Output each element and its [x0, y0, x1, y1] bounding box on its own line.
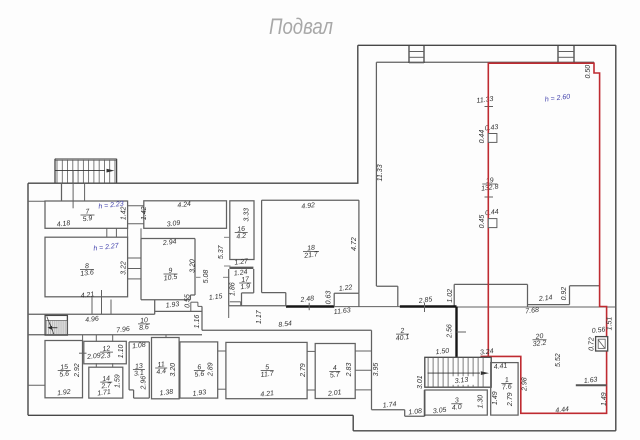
dim line y277 — [196, 276, 201, 278]
outer wall left of hall section — [357, 45, 359, 183]
svg-text:5.37: 5.37 — [218, 244, 225, 259]
tick corridor x165 — [165, 335, 167, 338]
svg-text:1.42: 1.42 — [121, 206, 128, 220]
door lines rooms 6-5 — [218, 350, 226, 352]
svg-text:2.89: 2.89 — [207, 362, 214, 377]
svg-text:3.22: 3.22 — [121, 261, 128, 275]
door lines rooms 5-4 — [307, 350, 315, 352]
hall niche right vert — [569, 286, 571, 305]
svg-text:0.50: 0.50 — [585, 65, 592, 79]
room 6 — [180, 342, 218, 398]
corridor upper line — [155, 310, 202, 312]
room2 left wall — [371, 330, 373, 409]
corridor jog vert — [154, 300, 156, 315]
svg-text:5.08: 5.08 — [203, 270, 210, 284]
wall line y307 thin mid — [334, 306, 400, 308]
room 13 outline — [129, 341, 149, 343]
tick left 1.08 — [28, 384, 45, 386]
svg-text:2.79: 2.79 — [300, 363, 307, 378]
mini staircase — [45, 315, 67, 335]
svg-text:1.51: 1.51 — [606, 317, 613, 331]
small box under 17 — [230, 301, 241, 303]
room 7 — [45, 201, 128, 228]
svg-text:5.52: 5.52 — [555, 353, 562, 367]
svg-text:5.6: 5.6 — [59, 371, 70, 379]
svg-text:11.33: 11.33 — [377, 164, 384, 181]
hall niche right bottom — [528, 304, 570, 306]
outer wall bottom-right — [353, 430, 616, 432]
duct stub below 17 — [228, 306, 230, 318]
outer wall bottom-left — [28, 414, 353, 416]
room2 bottom step v — [404, 410, 406, 417]
wall thick right — [400, 305, 457, 307]
hall pilaster right vert — [527, 284, 529, 307]
corridor bottom line — [28, 334, 202, 336]
svg-text:0.63: 0.63 — [326, 291, 333, 305]
hall pilaster top — [454, 283, 527, 285]
room 14 — [89, 367, 123, 398]
svg-text:1.9: 1.9 — [240, 283, 251, 291]
shaft walls below room 8 — [91, 297, 93, 314]
room 11 — [152, 338, 180, 399]
svg-text:1.02: 1.02 — [447, 289, 454, 303]
svg-text:3.01: 3.01 — [417, 375, 424, 389]
step 0.55 outline — [190, 302, 192, 311]
hall inner wall top — [376, 61, 594, 63]
svg-text:0.72: 0.72 — [589, 337, 596, 351]
wall line 7.68 — [457, 306, 616, 308]
column square upper — [488, 134, 497, 143]
window W1 — [408, 45, 410, 63]
red unit boundary — [481, 63, 607, 413]
svg-text:7.6: 7.6 — [502, 383, 513, 391]
corridor top line — [28, 313, 155, 315]
outer wall left — [27, 183, 29, 415]
room 9 outline — [141, 238, 195, 240]
tick 2.85 — [424, 303, 426, 313]
room 4 — [315, 344, 355, 399]
door jamb rooms 7-8 — [106, 228, 108, 237]
room 18 right wall stub — [358, 293, 360, 307]
wall thick under room18 door — [286, 305, 334, 307]
svg-text:2.96: 2.96 — [141, 376, 148, 391]
room between 7 and 16 — [144, 201, 227, 229]
svg-text:3.20: 3.20 — [189, 259, 196, 273]
hall bottom left jog horiz — [376, 285, 397, 287]
svg-text:5.6: 5.6 — [194, 371, 205, 379]
room 17 thick top bar — [229, 267, 253, 269]
svg-text:2.3: 2.3 — [99, 352, 111, 360]
svg-text:0.45: 0.45 — [479, 215, 486, 229]
shelf line 1.63 — [576, 384, 607, 386]
svg-text:4.0: 4.0 — [452, 404, 463, 412]
tick rooms 4-2 — [355, 369, 371, 371]
hall bottom left jog vert — [397, 286, 399, 306]
niche box right — [596, 337, 608, 351]
svg-text:1.30: 1.30 — [478, 395, 485, 409]
bottom staircase — [425, 357, 491, 387]
svg-text:2.56: 2.56 — [446, 324, 453, 339]
svg-text:1.59: 1.59 — [115, 374, 122, 388]
hall pilaster left vert — [453, 284, 455, 307]
outer wall bottom step — [352, 415, 354, 431]
svg-text:0.92: 0.92 — [561, 287, 568, 301]
svg-text:1.17: 1.17 — [256, 309, 263, 324]
tick 2.56 — [457, 331, 467, 333]
door lines corridor 1.42 — [128, 205, 144, 207]
svg-text:0.44: 0.44 — [479, 130, 486, 144]
svg-text:4.72: 4.72 — [351, 237, 358, 251]
room 3 — [425, 390, 488, 415]
hall inner wall left — [375, 62, 377, 286]
svg-text:2.92: 2.92 — [74, 363, 81, 378]
room3 left wall ext — [424, 390, 426, 416]
hall niche top right — [570, 285, 600, 287]
outer wall right — [615, 45, 617, 431]
door lines corridor 3.22 — [128, 257, 141, 259]
svg-text:3.33: 3.33 — [244, 208, 251, 222]
svg-text:3.95: 3.95 — [373, 363, 380, 377]
room 5 — [226, 342, 307, 398]
svg-text:2.98: 2.98 — [522, 377, 529, 392]
room 16 — [230, 201, 254, 260]
svg-text:1.49: 1.49 — [601, 392, 608, 406]
column square lower — [488, 219, 497, 228]
wall thick vert stair — [455, 307, 457, 358]
outer wall top-left section — [28, 182, 359, 184]
svg-text:1.42: 1.42 — [141, 206, 148, 220]
svg-text:1.49: 1.49 — [492, 391, 499, 405]
door lines rooms 4-2 — [355, 350, 371, 352]
tick room7 top to wall — [28, 200, 45, 202]
room 12 — [84, 341, 127, 364]
room 15 — [45, 341, 83, 398]
top staircase — [55, 158, 117, 161]
room 8 — [45, 237, 128, 297]
corridor step vert — [201, 306, 203, 330]
outer wall top — [358, 44, 616, 46]
svg-text:4.4: 4.4 — [156, 368, 167, 376]
room 1 — [491, 363, 518, 416]
corridor line 8.54 — [202, 329, 372, 331]
svg-text:1.16: 1.16 — [194, 315, 201, 329]
svg-text:1.86: 1.86 — [230, 282, 237, 296]
svg-text:2.79: 2.79 — [507, 392, 514, 407]
room2 bottom — [372, 409, 405, 411]
room 17 outline — [228, 269, 230, 306]
tick 2.48 — [308, 303, 310, 310]
svg-text:4.2: 4.2 — [236, 233, 247, 241]
svg-text:2.83: 2.83 — [346, 363, 353, 378]
svg-text:1.10: 1.10 — [118, 344, 125, 358]
window W2 — [557, 45, 559, 63]
svg-text:5.9: 5.9 — [82, 215, 93, 223]
room2 bottom step h — [405, 415, 425, 417]
svg-text:3.20: 3.20 — [170, 363, 177, 377]
room 18 outline — [262, 199, 359, 201]
stair shaft walls — [61, 183, 63, 201]
svg-text:8.6: 8.6 — [139, 324, 150, 332]
svg-text:Подвал: Подвал — [269, 14, 333, 39]
